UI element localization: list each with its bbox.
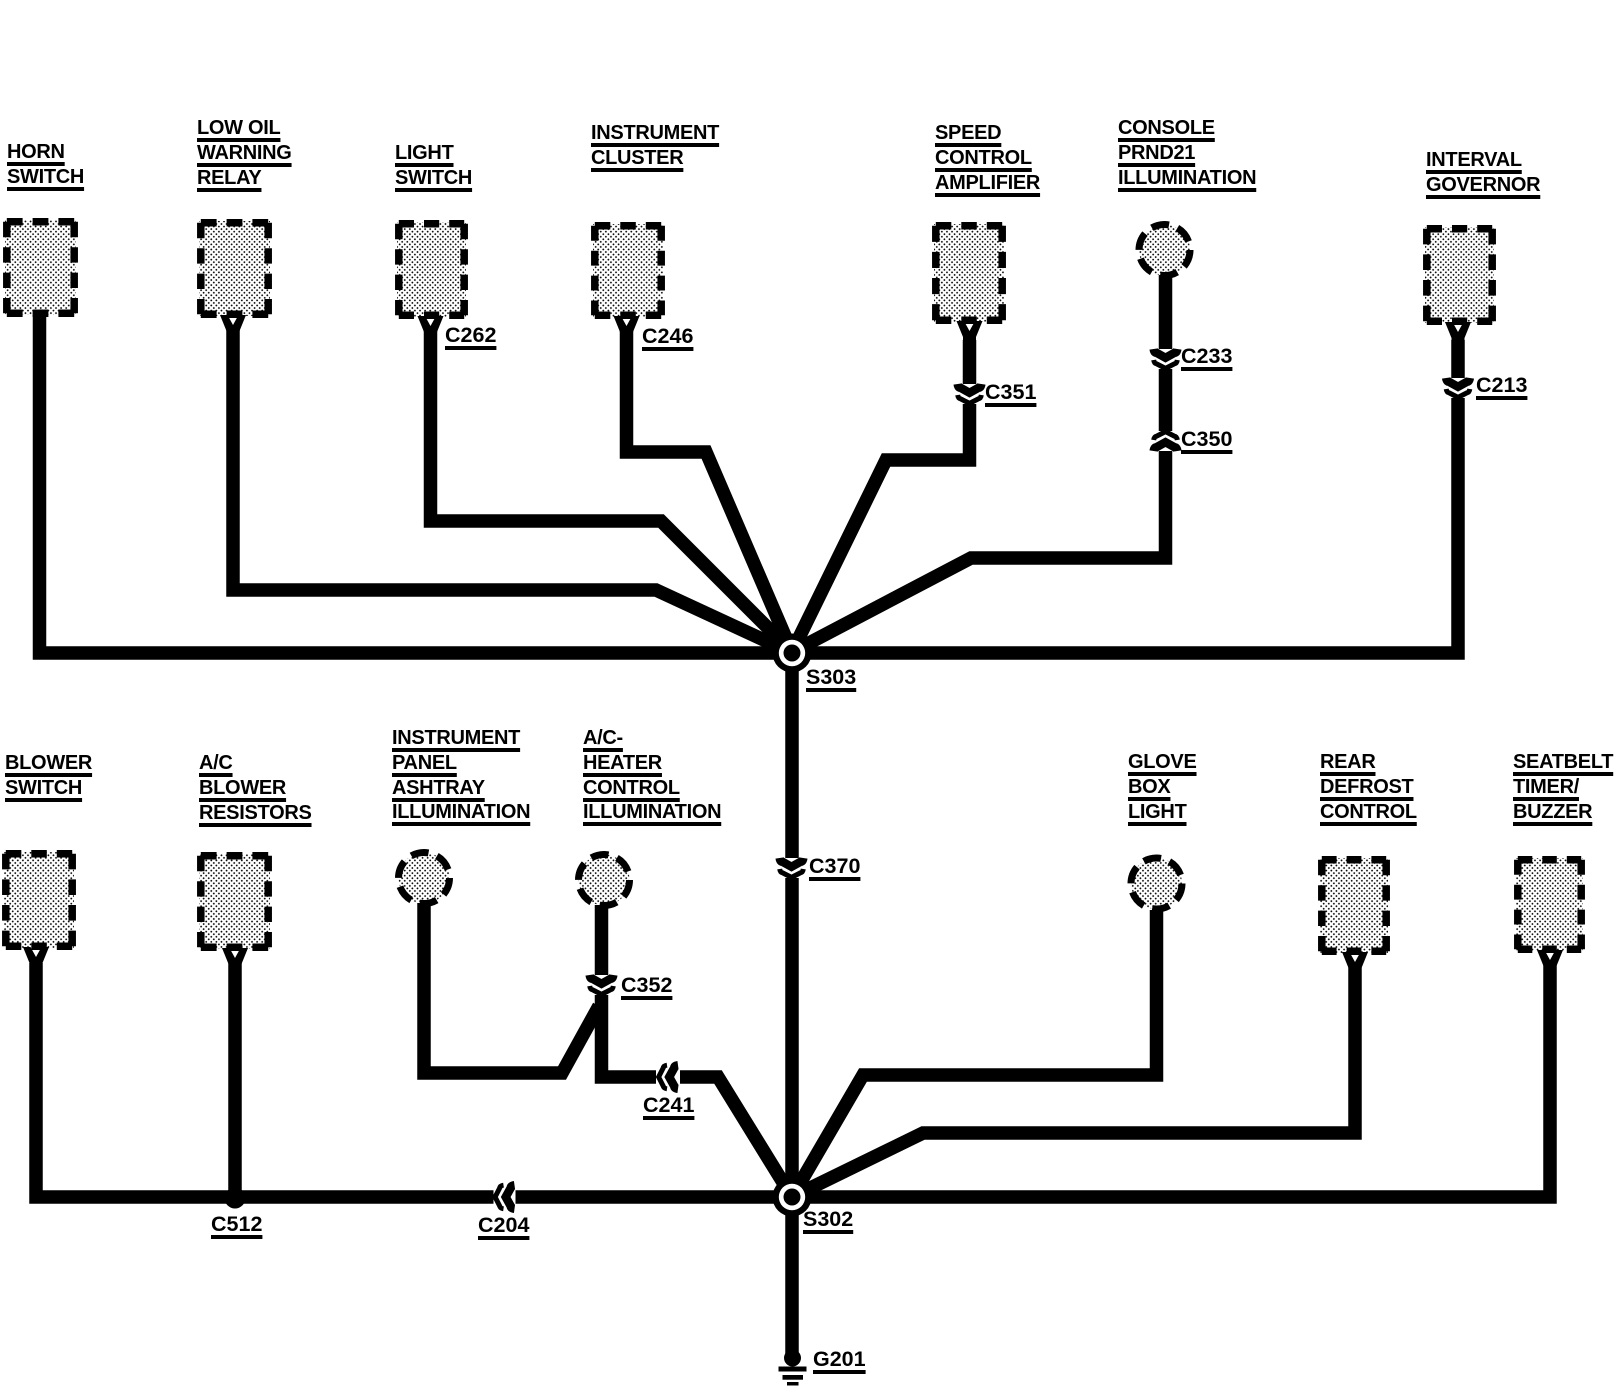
wire console illumination to connector C233 xyxy=(1159,275,1173,349)
component box: LIGHT SWITCH xyxy=(397,222,466,317)
label C350 xyxy=(1181,427,1232,451)
connector fork at A/C BLOWER RESISTORS xyxy=(222,948,248,970)
wire rear defrost control to S302 xyxy=(792,963,1355,1197)
wire connector C370 to S302 xyxy=(785,878,799,1197)
connector C350 symbol xyxy=(1154,432,1178,451)
component box: INTERVAL GOVERNOR xyxy=(1425,227,1494,323)
wire speed control amplifier to connector C351 xyxy=(963,340,977,384)
label A/C-HEATER CONTROL ILLUMINATION xyxy=(583,726,721,825)
wire connector C350 to S303 xyxy=(792,451,1166,652)
connector C241 symbol xyxy=(659,1065,678,1089)
splice S302 junction dot xyxy=(773,1178,812,1217)
wire connector C351 to S303 xyxy=(792,404,970,652)
label LIGHT SWITCH xyxy=(395,141,472,191)
connector C351 symbol xyxy=(958,384,982,403)
component box: SPEED CONTROL AMPLIFIER xyxy=(934,224,1004,322)
component box: LOW OIL WARNING RELAY xyxy=(199,221,270,316)
wire connector C204 to S302 xyxy=(516,1190,793,1204)
lamp circle: CONSOLE PRND21 ILLUMINATION xyxy=(1139,225,1190,276)
connector fork at REAR DEFROST CONTROL xyxy=(1342,952,1368,974)
connector fork at BLOWER SWITCH xyxy=(23,947,49,969)
connector fork at LOW OIL WARNING RELAY xyxy=(220,315,246,337)
label INSTRUMENT CLUSTER xyxy=(591,121,719,171)
label C351 xyxy=(985,380,1036,404)
component box: INSTRUMENT CLUSTER xyxy=(593,224,663,317)
wire connector C241 to S302 xyxy=(680,1077,792,1197)
label C262 xyxy=(445,323,496,347)
lamp circle: GLOVE BOX LIGHT xyxy=(1131,858,1182,909)
label C512 xyxy=(211,1212,262,1236)
ground symbol G201 xyxy=(779,1350,807,1386)
label INSTRUMENT PANEL ASHTRAY ILLUMINATION xyxy=(392,726,530,825)
label C204 xyxy=(478,1213,529,1237)
splice S303 junction dot xyxy=(773,634,812,673)
label C246 xyxy=(642,324,693,348)
label HORN SWITCH xyxy=(7,140,84,190)
connector C213 symbol xyxy=(1446,378,1470,397)
wire horn switch to S303 and top bus to interval governor xyxy=(40,315,1459,653)
wire light switch to S303 xyxy=(431,330,793,652)
connector fork at SPEED CONTROL AMPLIFIER xyxy=(957,321,983,343)
wire connector C233 to connector C350 xyxy=(1159,369,1173,431)
component box: A/C BLOWER RESISTORS xyxy=(199,854,270,949)
wire glove box light to S302 xyxy=(792,910,1157,1197)
label INTERVAL GOVERNOR xyxy=(1426,148,1540,198)
connector C352 symbol xyxy=(590,975,614,994)
connector fork at LIGHT SWITCH xyxy=(418,316,444,338)
connector C370 symbol xyxy=(780,858,804,877)
wire S302 to ground G201 xyxy=(785,1197,799,1355)
wire instrument panel ashtray illumination branch xyxy=(424,903,599,1073)
component box: HORN SWITCH xyxy=(5,220,76,315)
connector fork at SEATBELT TIMER/BUZZER xyxy=(1537,950,1563,972)
wire blower switch to connector C204 via C512 xyxy=(36,963,494,1197)
label C241 xyxy=(643,1093,694,1117)
connector fork at INSTRUMENT CLUSTER xyxy=(614,316,640,338)
component box: REAR DEFROST CONTROL xyxy=(1320,858,1388,953)
label CONSOLE PRND21 ILLUMINATION xyxy=(1118,116,1256,190)
wire low oil warning relay to S303 xyxy=(233,330,792,653)
lamp circle: A/C-HEATER CONTROL ILLUMINATION xyxy=(579,855,630,906)
junction C512 dot xyxy=(225,1188,246,1209)
label C352 xyxy=(621,973,672,997)
label LOW OIL WARNING RELAY xyxy=(197,116,292,190)
label GLOVE BOX LIGHT xyxy=(1128,750,1197,824)
component box: BLOWER SWITCH xyxy=(4,852,74,948)
wire interval governor to connector C213 xyxy=(1451,340,1465,378)
label SEATBELT TIMER/BUZZER xyxy=(1513,750,1613,824)
connector C233 symbol xyxy=(1154,349,1178,368)
label C233 xyxy=(1181,344,1232,368)
label REAR DEFROST CONTROL xyxy=(1320,750,1417,824)
label C370 xyxy=(809,854,860,878)
label S303 xyxy=(806,665,856,689)
component box: SEATBELT TIMER/BUZZER xyxy=(1516,858,1583,951)
label SPEED CONTROL AMPLIFIER xyxy=(935,121,1040,195)
label A/C BLOWER RESISTORS xyxy=(199,751,312,825)
connector fork at INTERVAL GOVERNOR xyxy=(1445,322,1471,344)
wire a/c-heater control illumination to connector C352 xyxy=(595,905,609,975)
wire seatbelt timer/buzzer to S302 xyxy=(792,963,1550,1197)
lamp circle: INSTRUMENT PANEL ASHTRAY ILLUMINATION xyxy=(399,853,450,904)
label S302 xyxy=(803,1207,853,1231)
label BLOWER SWITCH xyxy=(5,751,92,801)
wire connector C352 to connector C241 xyxy=(602,995,657,1077)
wire a/c blower resistors to C512 junction xyxy=(228,963,242,1197)
label C213 xyxy=(1476,373,1527,397)
connector C204 symbol xyxy=(495,1185,514,1209)
wire instrument cluster to S303 xyxy=(627,330,793,652)
label G201 xyxy=(813,1347,866,1371)
wire S303 to connector C370 xyxy=(785,653,799,858)
